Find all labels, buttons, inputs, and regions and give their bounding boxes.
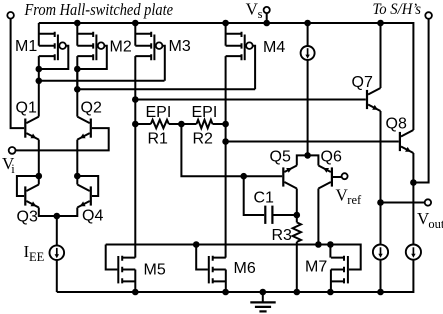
svg-text:M2: M2 [110, 39, 132, 56]
node Vout junction [377, 199, 384, 206]
wire Q3 collector [38, 176, 40, 185]
transistor M7 (NMOS, mirrored) [331, 256, 348, 292]
label Q6 [321, 148, 342, 165]
wire M3 drain to Q7 base [135, 99, 365, 101]
terminal Vs [264, 7, 270, 13]
transistor M6 (NMOS) [209, 256, 226, 292]
transistor Q3 (NPN) [25, 185, 39, 208]
wire M1 drain node [38, 69, 40, 81]
label Vs [246, 0, 263, 21]
label EPI R1 [146, 104, 172, 121]
transistor Q6 (NPN) [318, 166, 332, 189]
svg-text:Q4: Q4 [82, 208, 103, 225]
node C1 to Q5 base [240, 173, 247, 180]
transistor Q8 (NPN) [400, 130, 414, 153]
wire Q6 base to Vref [333, 176, 342, 178]
svg-text:R1: R1 [148, 131, 169, 148]
svg-text:EPI: EPI [146, 104, 172, 121]
wire M2 drain node [76, 69, 78, 89]
wire ground rail [57, 260, 414, 292]
wire Q4 emitter [57, 208, 78, 217]
label M5 [144, 262, 166, 279]
svg-text:From Hall-switched plate: From Hall-switched plate [24, 0, 174, 19]
transistor Q4 (NPN) [77, 185, 91, 208]
node R1/R2 junctions [132, 121, 229, 128]
terminal: From Hall-switched plate input [7, 12, 14, 19]
node tail junction [54, 213, 61, 220]
wire Q8 base line [226, 141, 399, 143]
current source I2 [373, 245, 388, 260]
transistor M1 (PMOS) [39, 23, 69, 69]
svg-text:R3: R3 [272, 227, 293, 244]
label C1 [254, 190, 275, 207]
node M3 drain [132, 96, 139, 103]
terminal To S/H's [425, 12, 432, 19]
transistor M4 (PMOS) [226, 23, 256, 124]
wire Q1 emitter [38, 140, 40, 176]
label Q3 [17, 209, 38, 226]
wire Q8 emitter to current source [412, 183, 414, 245]
wire bias current source upper [307, 23, 309, 46]
resistor R1 (EPI) [135, 120, 181, 128]
wire M3 drain to R1 [134, 100, 136, 125]
wire Q6 collector [317, 189, 319, 245]
wire Q7 emitter [380, 111, 382, 203]
transistor Q2 (NPN) [77, 117, 91, 140]
label IEE [24, 242, 45, 264]
resistor R2 (EPI) [181, 120, 225, 128]
node M4 drain / Q8 base tap [222, 138, 229, 145]
node Q5 collector / R3 top [294, 212, 301, 219]
wire Q1 collector [38, 81, 40, 117]
wire M5 gate riser [106, 245, 118, 270]
label Q4 [82, 208, 103, 225]
node Q2/Q4 junction [74, 173, 81, 180]
svg-text:M3: M3 [169, 38, 191, 55]
svg-text:M6: M6 [234, 260, 256, 277]
wire Q2 emitter [76, 140, 78, 176]
transistor M3 (PMOS) [135, 23, 165, 100]
label Q5 [270, 148, 291, 165]
wire tail to IEE [56, 216, 58, 245]
node ground rail junctions [132, 289, 384, 296]
svg-text:Q7: Q7 [352, 74, 373, 91]
capacitor C1 [244, 176, 297, 224]
transistor Q7 (NPN) [367, 88, 381, 111]
svg-text:s: s [258, 7, 263, 21]
wire IEE to ground rail [56, 260, 58, 292]
label M4 [263, 39, 285, 56]
wire R midpoint to Q5 base [181, 124, 282, 176]
wire M2 gate to M4 gate [77, 88, 255, 90]
svg-text:Q3: Q3 [17, 209, 38, 226]
label Q2 [81, 99, 102, 116]
transistor M2 (PMOS) [77, 23, 107, 89]
wire M6 gate riser [196, 245, 208, 270]
wire Q5/Q6 emitters join [297, 155, 319, 165]
wire mirror gate bus [106, 245, 361, 270]
wire plate terminal to Q1 base [11, 19, 25, 129]
wire Q7 collector [380, 23, 382, 88]
svg-text:Q6: Q6 [321, 148, 342, 165]
transistor Q1 (NPN) [25, 117, 39, 140]
label Vi [2, 154, 15, 176]
svg-text:ref: ref [347, 193, 362, 207]
svg-text:To S/H’s: To S/H’s [373, 1, 422, 18]
transistor Q5 (NPN) [283, 166, 297, 189]
svg-text:M4: M4 [263, 39, 285, 56]
current source IEE [50, 245, 65, 260]
svg-text:Q8: Q8 [386, 115, 407, 132]
svg-text:Q1: Q1 [16, 99, 37, 116]
wire M4 drain chain [225, 124, 227, 258]
node Q5/Q6 emitter junction [304, 152, 311, 159]
node Q8 emitter / S-H tap [410, 179, 417, 186]
svg-text:R2: R2 [193, 131, 214, 148]
label M6 [234, 260, 256, 277]
wire Q4 collector [76, 176, 78, 185]
wire Q5 collector [296, 189, 298, 216]
svg-text:out: out [428, 217, 443, 231]
label M2 [110, 39, 132, 56]
svg-text:C1: C1 [254, 190, 275, 207]
label To S/H's [373, 1, 422, 18]
wire I2 to ground rail [380, 260, 382, 292]
node Vs rail junctions [74, 20, 384, 27]
transistor M5 (NMOS) [118, 256, 135, 292]
svg-text:EE: EE [29, 250, 45, 264]
ground symbol [250, 292, 275, 311]
label M7 [305, 259, 327, 276]
node M2 drain/gate [74, 66, 81, 93]
wire M7 drain [329, 245, 331, 258]
wire Q7 emitter to current source [380, 203, 382, 245]
label From Hall-switched plate [24, 0, 174, 19]
label R2 [193, 131, 214, 148]
label M3 [169, 38, 191, 55]
wire Q3 emitter [39, 208, 57, 217]
svg-text:i: i [11, 162, 15, 176]
label Q7 [352, 74, 373, 91]
label Q1 [16, 99, 37, 116]
wire Q2 collector [76, 89, 78, 116]
terminal Vi input [9, 147, 16, 154]
label M1 [15, 38, 37, 55]
current source I1 [301, 46, 315, 60]
svg-text:M7: M7 [305, 259, 327, 276]
resistor R3 [293, 215, 301, 292]
node bus junctions [193, 241, 334, 248]
label R1 [148, 131, 169, 148]
wire Vi to Q2 base [16, 128, 109, 150]
wire Q8 emitter to S/H terminal [413, 19, 428, 183]
wire Vs terminal stub [266, 13, 268, 23]
label Q8 [386, 115, 407, 132]
label R3 [272, 227, 293, 244]
wire Vout line [381, 202, 425, 204]
current source I3 [406, 245, 421, 260]
svg-text:M5: M5 [144, 262, 166, 279]
wire Q3 base loop [17, 176, 39, 196]
node M1 drain/gate [36, 66, 43, 84]
terminal Vout [425, 199, 431, 205]
wire M5 drain [134, 124, 136, 258]
terminal Vref [342, 173, 348, 179]
wire Q4 base loop [77, 176, 98, 196]
svg-text:M1: M1 [15, 38, 37, 55]
node Q1/Q3 junction [36, 173, 43, 180]
wire M1 gate to M3 gate [39, 80, 165, 82]
wire Q8 emitter [412, 153, 414, 183]
wire bias current source lower [307, 60, 309, 155]
wire Vs supply rail [39, 23, 414, 130]
label EPI R2 [192, 104, 218, 121]
label Vref [336, 186, 363, 208]
svg-text:Q5: Q5 [270, 148, 291, 165]
label Vout [417, 209, 443, 231]
svg-text:EPI: EPI [192, 104, 218, 121]
svg-text:Q2: Q2 [81, 99, 102, 116]
